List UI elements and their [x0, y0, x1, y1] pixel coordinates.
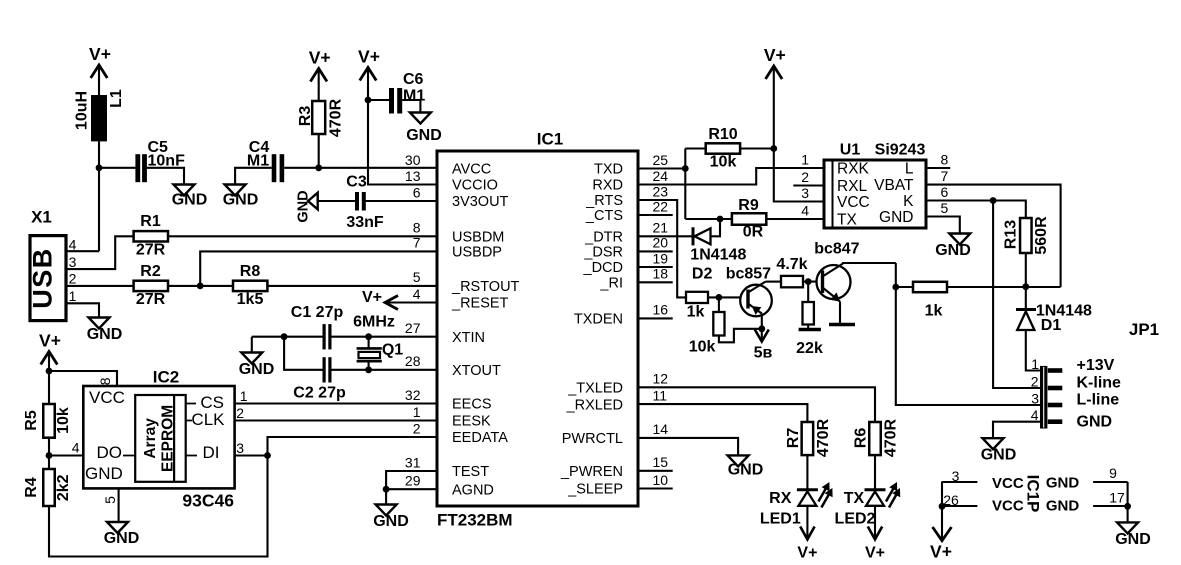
svg-text:C2 27p: C2 27p — [293, 385, 346, 402]
wire — [1025, 253, 1027, 287]
wire — [147, 168, 184, 185]
wire — [99, 167, 135, 169]
svg-text:EESK: EESK — [452, 414, 491, 430]
EEPROM IC2 93C46 — [83, 386, 234, 488]
svg-text:9: 9 — [1109, 465, 1117, 481]
resistor R13 — [1020, 218, 1032, 253]
svg-text:GND: GND — [1046, 475, 1080, 492]
wire — [235, 168, 272, 185]
svg-text:93C46: 93C46 — [182, 491, 234, 511]
svg-text:C6: C6 — [403, 71, 424, 88]
wire VCCIO — [368, 68, 437, 185]
power symbol V+ (R3) — [310, 69, 327, 82]
svg-text:_RESET: _RESET — [451, 296, 509, 312]
svg-text:+13V: +13V — [1077, 357, 1115, 374]
svg-text:27R: 27R — [136, 242, 166, 259]
LED LED1 — [797, 488, 818, 491]
wire +13V — [1026, 330, 1040, 371]
svg-text:bc847: bc847 — [814, 241, 859, 258]
IC1 pin stub — [638, 250, 673, 252]
svg-text:5в: 5в — [754, 345, 773, 362]
svg-text:V+: V+ — [358, 47, 380, 67]
junction — [315, 164, 322, 171]
svg-text:R4: R4 — [23, 477, 40, 498]
wire — [896, 286, 913, 288]
power symbol V+ (C6) — [360, 68, 377, 81]
svg-text:R3: R3 — [297, 106, 314, 127]
svg-text:8: 8 — [97, 377, 113, 385]
resistor R5 — [43, 404, 55, 438]
svg-text:27: 27 — [405, 320, 421, 336]
wire — [385, 489, 387, 504]
svg-text:R2: R2 — [140, 263, 161, 280]
svg-text:TX: TX — [844, 490, 865, 507]
svg-text:EEDATA: EEDATA — [452, 430, 508, 446]
power symbol V+ (L1 top) — [91, 65, 108, 78]
svg-text:V+: V+ — [764, 45, 786, 65]
IC IC1 FT232BM — [437, 151, 638, 506]
svg-text:6: 6 — [413, 184, 421, 200]
svg-text:C3: C3 — [346, 174, 367, 191]
svg-text:1: 1 — [240, 388, 248, 404]
wire — [874, 455, 876, 490]
wire _RESET — [385, 301, 437, 303]
wire emitter — [839, 302, 841, 324]
svg-text:_SLEEP: _SLEEP — [567, 482, 623, 498]
wire emitter — [761, 314, 763, 341]
svg-text:31: 31 — [405, 454, 421, 470]
svg-text:1k: 1k — [687, 304, 705, 321]
IC1 pin stub — [638, 470, 673, 472]
svg-text:2: 2 — [69, 271, 77, 287]
IC1 pin stub — [638, 487, 673, 489]
diode D1 1N4148 — [1025, 287, 1027, 310]
wire K — [926, 201, 1026, 219]
wire K-line — [993, 201, 1040, 389]
wire — [368, 99, 389, 101]
wire — [48, 456, 50, 470]
svg-text:GND: GND — [296, 190, 312, 222]
resistor R7 470R — [802, 422, 814, 455]
svg-text:LED2: LED2 — [835, 511, 876, 528]
svg-text:DO: DO — [97, 443, 123, 462]
svg-text:CLK: CLK — [191, 410, 225, 429]
wire — [318, 200, 356, 202]
svg-text:12: 12 — [653, 371, 669, 387]
wire _RTS — [638, 200, 686, 297]
svg-text:_DTR: _DTR — [584, 230, 623, 246]
svg-text:5: 5 — [941, 200, 949, 216]
svg-text:GND: GND — [406, 127, 442, 144]
resistor R8 — [233, 281, 267, 291]
wire AGND — [386, 488, 437, 490]
svg-text:GND: GND — [1046, 498, 1080, 515]
svg-text:10k: 10k — [710, 154, 737, 171]
svg-text:L: L — [905, 160, 914, 177]
IC2 internal connection stubs — [123, 404, 197, 456]
ground (C5) — [174, 185, 195, 196]
svg-text:R6: R6 — [853, 428, 870, 449]
junction — [46, 368, 53, 375]
ground (PWRCTL) — [728, 455, 749, 466]
capacitor C2 — [323, 357, 326, 382]
wire — [941, 482, 943, 540]
transistor bc847 (NPN) — [817, 265, 851, 299]
junction — [770, 145, 777, 152]
svg-text:17: 17 — [1109, 490, 1125, 506]
wire VCC U1 — [774, 66, 824, 202]
svg-text:3: 3 — [952, 468, 960, 484]
svg-text:3: 3 — [236, 440, 244, 456]
wire — [98, 65, 100, 95]
connector IC1P pin 9 — [1093, 481, 1128, 483]
svg-text:VCC: VCC — [837, 194, 870, 211]
junction — [365, 366, 372, 373]
wire _RXLED — [638, 404, 807, 422]
wire — [318, 69, 320, 102]
wire — [685, 218, 732, 220]
wire — [48, 371, 50, 404]
svg-text:10: 10 — [653, 472, 669, 488]
svg-text:PWRCTL: PWRCTL — [562, 431, 623, 447]
svg-text:V+: V+ — [865, 545, 885, 562]
resistor 22k — [803, 302, 814, 325]
wire RSTOUT — [267, 285, 437, 287]
svg-text:29: 29 — [405, 473, 421, 489]
svg-text:AGND: AGND — [452, 482, 494, 498]
svg-text:0R: 0R — [743, 224, 764, 241]
wire VBAT node — [947, 286, 1061, 288]
junction — [383, 486, 390, 493]
junction — [805, 278, 812, 285]
junction — [264, 452, 271, 459]
svg-text:M1: M1 — [403, 88, 425, 105]
svg-text:6: 6 — [941, 184, 949, 200]
svg-text:4.7k: 4.7k — [776, 256, 807, 273]
crystal Q1 — [368, 337, 370, 349]
svg-text:10k: 10k — [55, 407, 72, 434]
svg-text:VCCIO: VCCIO — [452, 178, 498, 194]
svg-text:EEPROM: EEPROM — [160, 405, 177, 472]
junction — [717, 216, 724, 223]
wire RXD-RXK — [638, 168, 824, 185]
svg-text:Si9243: Si9243 — [875, 142, 926, 159]
svg-text:5: 5 — [413, 269, 421, 285]
svg-text:R1: R1 — [140, 213, 161, 230]
svg-text:Array: Array — [142, 418, 159, 459]
svg-text:_RTS: _RTS — [585, 193, 623, 209]
wire USB pin1 — [66, 303, 99, 317]
wire 3V3OUT — [365, 200, 437, 202]
svg-text:_PWREN: _PWREN — [560, 464, 623, 480]
U1 pin2 RXL stub — [793, 184, 824, 186]
wire AVCC rail — [284, 167, 437, 169]
svg-text:28: 28 — [405, 353, 421, 369]
svg-text:TXDEN: TXDEN — [574, 312, 623, 328]
svg-text:V+: V+ — [309, 48, 331, 68]
capacitor C4 — [272, 154, 277, 182]
connector JP1 — [1040, 366, 1047, 429]
svg-text:JP1: JP1 — [1129, 320, 1159, 339]
svg-text:VBAT: VBAT — [874, 177, 914, 194]
svg-text:_CTS: _CTS — [585, 208, 623, 224]
svg-text:EECS: EECS — [452, 397, 492, 413]
svg-text:23: 23 — [653, 183, 669, 199]
wire _TXLED — [638, 387, 875, 422]
svg-text:_RI: _RI — [599, 276, 623, 292]
svg-text:_DSR: _DSR — [583, 245, 623, 261]
svg-text:3V3OUT: 3V3OUT — [452, 194, 509, 210]
ground (AGND) — [376, 505, 397, 516]
svg-text:LED1: LED1 — [760, 511, 801, 528]
wire — [1127, 482, 1129, 522]
svg-text:470R: 470R — [815, 418, 832, 457]
capacitor C1 — [323, 324, 326, 349]
svg-text:GND: GND — [728, 462, 764, 479]
wire — [807, 282, 809, 302]
wire — [48, 438, 50, 456]
svg-text:R9: R9 — [738, 197, 759, 214]
capacitor C6 — [389, 88, 394, 114]
svg-text:GND: GND — [239, 361, 275, 378]
svg-text:GND: GND — [1115, 531, 1151, 548]
svg-text:3: 3 — [69, 254, 77, 270]
power arrow V+ (_RESET pin4) — [385, 296, 398, 310]
svg-text:27R: 27R — [136, 291, 166, 308]
svg-text:IC1P: IC1P — [1024, 475, 1043, 513]
svg-text:RXL: RXL — [837, 178, 868, 195]
IC1 pin stub — [638, 281, 673, 283]
power arrow V+ (LED) — [800, 527, 814, 540]
wire — [168, 285, 233, 287]
wire L-line — [896, 263, 1040, 405]
svg-text:FT232BM: FT232BM — [437, 511, 513, 530]
wire — [98, 141, 100, 167]
svg-text:GND: GND — [172, 192, 208, 209]
IC U1 Si9243 — [824, 160, 926, 228]
svg-text:560R: 560R — [1033, 216, 1050, 255]
svg-text:TX: TX — [837, 211, 857, 228]
svg-text:2: 2 — [413, 420, 421, 436]
svg-text:AVCC: AVCC — [452, 162, 491, 178]
wire USBDP — [200, 251, 437, 286]
svg-text:USB: USB — [28, 247, 58, 309]
svg-text:V+: V+ — [362, 289, 382, 306]
wire PWRCTL — [638, 438, 738, 456]
svg-text:10k: 10k — [689, 339, 716, 356]
connector IC1P pin 3 — [941, 481, 977, 483]
wire collector — [766, 281, 782, 283]
wire EESK — [235, 419, 437, 421]
resistor R6 470R — [869, 422, 881, 455]
svg-text:GND: GND — [85, 464, 123, 483]
svg-text:4: 4 — [69, 237, 77, 253]
svg-text:GND: GND — [104, 530, 140, 547]
svg-text:30: 30 — [405, 152, 421, 168]
wire TX U1 — [766, 218, 824, 220]
junction — [281, 333, 288, 340]
svg-text:V+: V+ — [39, 331, 61, 351]
resistor R1 — [134, 231, 168, 241]
ground (C3) — [308, 193, 318, 210]
svg-text:TEST: TEST — [452, 464, 489, 480]
svg-text:R5: R5 — [23, 410, 40, 431]
junction — [365, 97, 372, 104]
junction — [892, 284, 899, 291]
svg-text:7: 7 — [413, 235, 421, 251]
wire — [874, 506, 876, 539]
wire XTIN left — [252, 336, 323, 338]
wire JP1 GND — [993, 422, 1040, 439]
wire — [318, 134, 320, 168]
svg-text:D1: D1 — [1041, 317, 1062, 334]
wire — [803, 281, 823, 283]
resistor 4.7k — [781, 276, 803, 287]
svg-text:GND: GND — [223, 192, 259, 209]
svg-text:470R: 470R — [882, 418, 899, 457]
svg-text:GND: GND — [879, 209, 913, 226]
svg-text:4: 4 — [72, 440, 80, 456]
svg-text:470R: 470R — [328, 98, 345, 137]
LED light arrows — [818, 488, 829, 508]
svg-text:3: 3 — [801, 185, 809, 201]
svg-text:22k: 22k — [796, 340, 823, 357]
ground (JP1) — [983, 438, 1004, 449]
IC1 pin stub — [638, 266, 673, 268]
junction — [96, 164, 103, 171]
capacitor C3 — [355, 192, 359, 211]
wire — [685, 147, 705, 149]
wire — [806, 506, 808, 539]
svg-text:32: 32 — [405, 387, 421, 403]
wire XTOUT — [331, 369, 437, 371]
wire — [711, 219, 721, 236]
svg-text:5: 5 — [102, 496, 118, 504]
resistor R10 — [706, 143, 740, 153]
svg-text:RX: RX — [769, 490, 792, 507]
resistor R4 — [43, 469, 55, 506]
svg-text:2: 2 — [1031, 373, 1039, 389]
wire — [284, 337, 322, 370]
svg-text:GND: GND — [981, 447, 1017, 464]
connector IC1P pin 26 — [942, 505, 977, 507]
junction — [197, 283, 204, 290]
wire — [684, 149, 686, 220]
wire USB pin3 — [66, 236, 134, 269]
svg-text:U1: U1 — [840, 142, 861, 159]
svg-text:RXD: RXD — [592, 178, 623, 194]
svg-text:D2: D2 — [692, 266, 713, 283]
capacitor C5 — [135, 154, 140, 182]
wire IC2 pin8 — [49, 371, 117, 386]
svg-text:8: 8 — [413, 220, 421, 236]
svg-text:TXD: TXD — [594, 162, 623, 178]
svg-text:1: 1 — [69, 288, 77, 304]
ground (IC1P) — [1117, 522, 1138, 533]
svg-text:GND: GND — [935, 242, 971, 259]
svg-text:15: 15 — [653, 454, 669, 470]
power arrow V+ (IC1P) — [933, 527, 952, 541]
svg-text:DI: DI — [203, 443, 220, 462]
diode D2 1N4148 — [692, 227, 695, 245]
svg-text:24: 24 — [653, 168, 669, 184]
junction — [758, 325, 765, 332]
resistor R2 — [134, 281, 168, 291]
svg-text:7: 7 — [941, 168, 949, 184]
transistor bc857 (PNP) — [740, 285, 772, 317]
svg-text:M1: M1 — [247, 153, 269, 170]
ground (USB) — [89, 318, 110, 329]
wire — [719, 329, 762, 343]
svg-text:C1 27p: C1 27p — [291, 304, 344, 321]
USB connector X1 — [30, 236, 66, 321]
svg-text:VCC: VCC — [992, 475, 1024, 492]
power arrow V+ (LED) — [868, 527, 882, 540]
wire DO — [49, 454, 83, 456]
svg-text:GND: GND — [1077, 414, 1113, 431]
svg-text:4: 4 — [801, 203, 809, 219]
svg-text:L-line: L-line — [1077, 392, 1120, 409]
resistor R9 — [732, 213, 766, 225]
wire VBAT — [926, 185, 1061, 287]
svg-text:RXK: RXK — [837, 160, 870, 177]
junction — [1124, 503, 1131, 510]
svg-text:GND: GND — [87, 326, 123, 343]
svg-text:R10: R10 — [708, 126, 737, 143]
wire EECS — [235, 402, 437, 404]
svg-text:_TXLED: _TXLED — [567, 381, 623, 397]
wire collector — [843, 262, 896, 265]
svg-text:1: 1 — [413, 404, 421, 420]
connector IC1P pin 17 — [1093, 505, 1128, 507]
svg-text:2k2: 2k2 — [55, 474, 72, 501]
resistor 1k (K-line) — [913, 282, 947, 292]
svg-text:1: 1 — [1031, 356, 1039, 372]
svg-text:21: 21 — [653, 220, 669, 236]
wire base — [708, 296, 748, 298]
wire TEST — [386, 471, 437, 489]
svg-text:19: 19 — [653, 250, 669, 266]
svg-text:25: 25 — [653, 152, 669, 168]
IC1 pin stub — [638, 317, 673, 319]
svg-text:10uH: 10uH — [74, 91, 91, 130]
svg-text:L1: L1 — [108, 89, 125, 108]
ground (C6) — [410, 113, 431, 124]
ground (U1) — [949, 234, 970, 245]
resistor R3 — [312, 101, 325, 134]
U1 pin8 stub — [926, 167, 950, 169]
junction node DO — [46, 452, 53, 459]
wire USB pin4 — [66, 250, 99, 252]
svg-text:2: 2 — [236, 405, 244, 421]
wire — [402, 100, 420, 113]
ground bar (22k) — [799, 328, 821, 332]
wire — [807, 325, 809, 330]
svg-text:X1: X1 — [31, 208, 52, 227]
wire USB pin2 — [66, 285, 134, 287]
junction — [990, 197, 997, 204]
svg-text:V+: V+ — [930, 542, 952, 562]
svg-text:bc857: bc857 — [726, 266, 771, 283]
svg-text:V+: V+ — [89, 44, 111, 64]
svg-text:K: K — [903, 193, 914, 210]
ground bar (bc847 emitter) — [829, 323, 855, 327]
svg-text:VCC: VCC — [89, 388, 125, 407]
svg-text:3: 3 — [1031, 390, 1039, 406]
LED LED2 — [865, 488, 886, 491]
junction — [365, 333, 372, 340]
wire bottom rail — [49, 456, 268, 557]
